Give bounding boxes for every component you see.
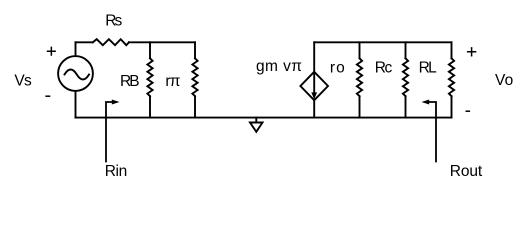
svg-text:ro: ro <box>330 60 345 77</box>
Rout arrow line <box>429 102 436 162</box>
resistor ro <box>357 58 362 96</box>
wire Rc top stub <box>405 42 407 58</box>
wire rpi top stub <box>194 42 196 58</box>
ground triangle <box>250 123 263 132</box>
dependent source arrowhead <box>311 92 317 99</box>
svg-text:Vo: Vo <box>495 72 513 89</box>
resistor RL <box>449 58 454 96</box>
plus sign left <box>47 47 56 56</box>
wire RB top stub <box>149 42 151 58</box>
dependent current source gm vpi diamond <box>300 72 328 100</box>
wire Rc bottom stub <box>405 96 407 117</box>
svg-text:Rs: Rs <box>105 13 122 30</box>
wire RL top stub <box>451 42 453 58</box>
svg-text:Rout: Rout <box>450 163 483 180</box>
wire dependent source top stub <box>313 42 315 72</box>
wire RB bottom stub <box>149 96 151 117</box>
Rout arrowhead <box>422 100 430 105</box>
Rin arrowhead <box>112 100 120 105</box>
wire RL bottom stub <box>451 96 453 117</box>
resistor Rs <box>93 39 129 45</box>
wire bottom rail <box>76 117 452 119</box>
wire dependent source bottom stub <box>313 100 315 117</box>
wire ro top stub <box>359 42 361 58</box>
voltage source Vs circle <box>58 56 93 91</box>
svg-text:Rin: Rin <box>105 163 128 180</box>
svg-text:gm vπ: gm vπ <box>256 58 302 75</box>
svg-text:rπ: rπ <box>165 73 180 90</box>
dependent source arrow shaft <box>313 73 315 94</box>
wire ro bottom stub <box>359 96 361 117</box>
wire top-left rail right part <box>129 41 195 43</box>
svg-text:Vs: Vs <box>14 73 32 90</box>
ground stub <box>255 118 257 123</box>
minus sign right <box>466 110 471 112</box>
plus sign right <box>467 47 476 56</box>
wire top-left rail left part <box>76 41 93 43</box>
resistor rpi <box>192 58 197 96</box>
svg-text:RB: RB <box>120 73 140 90</box>
resistor Rc <box>403 58 408 96</box>
svg-text:RL: RL <box>419 59 438 76</box>
svg-text:Rc: Rc <box>375 59 393 76</box>
wire top-right rail <box>314 41 451 43</box>
wire source bottom <box>75 91 77 117</box>
minus sign left <box>45 95 50 97</box>
wire source top to rail <box>75 42 77 55</box>
resistor RB <box>147 58 152 96</box>
Rin arrow line <box>106 102 112 162</box>
wire rpi bottom stub <box>194 96 196 117</box>
voltage source Vs sine wave <box>65 70 90 80</box>
